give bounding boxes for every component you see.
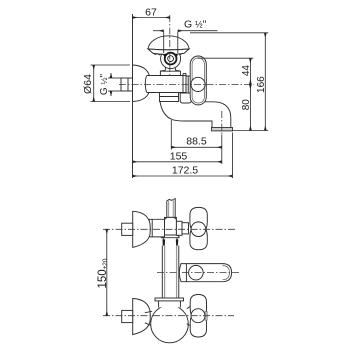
knob centerline — [169, 15, 171, 77]
top wing lever handle — [190, 207, 207, 249]
svg-text:G ½": G ½" — [99, 73, 110, 95]
dimension G1/2 left — [99, 73, 123, 96]
riser pipe (broken) — [167, 199, 175, 218]
diverter knob dome with knurled rim — [148, 36, 189, 55]
G1/2 inlet nipple — [121, 78, 133, 91]
wall mounting line — [132, 14, 134, 178]
mixer body cylinder — [145, 76, 186, 93]
lever handle capsule with boss — [190, 56, 206, 105]
diverter ball housing circle — [161, 49, 181, 69]
svg-text:G ½": G ½" — [184, 19, 207, 31]
svg-text:88.5: 88.5 — [186, 136, 207, 148]
dimensions 88.5 / 155 / 172.5 — [133, 120, 233, 178]
dimension 67 — [133, 7, 170, 19]
svg-text:67: 67 — [145, 7, 157, 19]
body centerline — [119, 84, 254, 86]
middle handle centerline — [157, 272, 240, 274]
wall escutcheon bell (side view) — [133, 65, 151, 102]
dimension G1/2 top leader — [153, 19, 218, 54]
spout outlet centerline — [221, 111, 223, 135]
spout ball (end view) with neck — [151, 298, 189, 343]
dimension 150+-20 — [97, 229, 109, 315]
top valve block — [161, 217, 179, 237]
body end flange — [183, 74, 190, 97]
bottom escutcheon bell and nipple — [122, 299, 153, 335]
body column — [162, 246, 179, 298]
diverter knob stem base — [160, 64, 180, 76]
svg-text:166: 166 — [256, 76, 267, 93]
under-body diverter housing blocks — [160, 93, 192, 104]
column joint with seals — [163, 238, 179, 246]
top escutcheon bell and nipple — [122, 211, 151, 247]
svg-text:155: 155 — [170, 150, 188, 162]
svg-text:172.5: 172.5 — [172, 165, 198, 177]
dimensions 44 / 80 / 166 — [190, 33, 268, 131]
svg-text:44: 44 — [241, 65, 252, 77]
bottom inlet centerline — [103, 315, 234, 317]
tub spout with outlet flange — [160, 96, 233, 131]
middle lever handle (end view) — [179, 264, 231, 282]
top inlet centerline — [103, 228, 236, 230]
svg-text:Ø64: Ø64 — [82, 74, 94, 94]
top handle stem — [176, 221, 188, 235]
diverter ball joint — [164, 53, 178, 65]
bottom wing lever handle — [187, 295, 207, 338]
top union nut — [149, 219, 164, 237]
svg-text:80: 80 — [241, 99, 252, 111]
dimension O64 — [82, 65, 130, 102]
